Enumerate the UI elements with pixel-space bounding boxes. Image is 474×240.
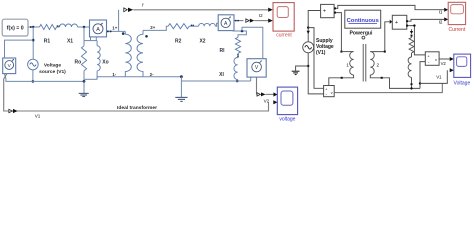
svg-text:X2: X2 [199,39,205,45]
voltage scope (left, blue) [277,87,297,122]
voltmeter V1 bottom pin to rail [4,74,6,82]
source bottom wire and ground [308,53,323,94]
ammeter U-A2 block [218,15,234,31]
svg-text:V2: V2 [441,61,447,66]
load branch bottom port marker [411,83,413,85]
node load/rail junction [410,87,412,89]
inductor Xo [97,46,100,71]
riser to I' signal line [118,10,120,32]
svg-text:1+: 1+ [112,26,117,31]
wire R2 to X2 [189,25,198,27]
wire down to magnetizing branch [83,27,85,41]
ideal transformer left winding [125,31,131,76]
linear transformer [329,22,420,89]
I1 signal from i1 to Current scope [336,5,444,9]
ground 2 stem [180,77,182,97]
wire A1 to transformer [107,30,126,32]
filled arrow on I' line [128,8,133,12]
resistor Rl [235,37,240,53]
powergui block [345,10,381,28]
V2 signal to Voltage scope [439,58,450,60]
arrow into i2 [390,20,393,24]
svg-text:I2: I2 [259,13,263,18]
svg-text:Continuous: Continuous [347,18,379,24]
svg-text:Ideal transformer: Ideal transformer [117,105,157,111]
arrow into current scope input 1 [268,8,273,12]
voltage measurement V2 block [425,52,439,66]
svg-text:Voltage: Voltage [44,63,62,69]
arrow into load branch [410,31,413,34]
current measurement i1 block [321,4,337,17]
svg-text:2: 2 [376,63,379,68]
node (84,27) [83,26,86,29]
i2 electrical out to V2 measure [408,26,425,55]
ground 1 stem [83,81,85,93]
solver f(x)=0 block [2,19,28,36]
svg-text:v: v [331,91,333,95]
svg-text:I1: I1 [439,10,443,15]
svg-text:R1: R1 [44,38,51,44]
svg-text:Xo: Xo [102,60,108,66]
voltmeter V2 bottom pin [250,77,252,81]
load inductor (right model) [408,57,411,77]
bottom rail to scope riser [420,70,447,83]
wire load bottom to rail [411,85,413,88]
current scope (left, red) [273,3,294,39]
svg-text:v: v [435,58,437,62]
i1 electrical out to transformer 1+ [336,13,341,52]
svg-text:I2: I2 [439,20,443,25]
ammeter A1 bottom pin stubs [91,37,97,41]
resistor R1 [40,24,57,29]
wire load resistor to load inductor [411,53,413,57]
V2 minus wire down to bottom rail [420,62,425,89]
V1 measure + tap wire [308,28,323,89]
ideal transformer right winding [137,30,143,76]
down arrow on source top wire [307,31,310,34]
svg-text:Xl: Xl [219,72,224,78]
voltmeter U-V2 block [247,59,266,77]
node dots after f(x) [30,26,32,28]
load branch top port marker [411,35,413,37]
right winding polarity dot [145,35,148,38]
rail C [181,80,250,82]
inductor Xl [234,58,238,80]
svg-text:Rl: Rl [220,48,226,54]
resistor Ro [81,46,86,71]
ground 1 [79,93,89,96]
supply voltage source circle [303,42,314,53]
AC voltage source V1 [28,59,39,70]
transformer bottom pins [329,75,354,86]
inductor X2 [199,23,216,26]
svg-text:Ro: Ro [74,60,81,66]
I' signal wire [133,9,268,11]
wire load inductor to bottom port [411,77,413,83]
svg-text:V1: V1 [35,113,41,118]
svg-text:+: + [395,20,398,26]
rail B under transformer [97,77,181,80]
svg-text:R2: R2 [175,39,182,45]
branch up to voltmeter V2 top [242,27,263,58]
voltmeter U-V1 block [3,58,16,74]
svg-text:Voltage: Voltage [454,81,471,87]
svg-text:2-: 2- [150,72,154,77]
A2 electrical out to load / voltmeter V2 [233,31,246,38]
Current scope (right, red) [448,2,466,33]
PS-converter open arrow on I' line [124,8,127,12]
current measurement i2 block [392,15,408,29]
inductor X1 [60,24,78,27]
svg-text:V1: V1 [436,74,442,79]
ground 2 [175,97,187,101]
magnetizing branch top wire [84,40,97,42]
stub down to rail A [83,79,85,81]
wire source top to i1 [308,11,320,42]
I2 signal from A2 [234,20,243,22]
V1 signal line [4,74,269,111]
wire X1 to ammeter A1 [78,26,90,28]
load resistor (right model) [409,38,414,54]
node for V1-measure tap [307,26,309,28]
wire port to load resistor [411,36,413,39]
secondary wire to R2 [143,26,168,30]
svg-text:source (V1): source (V1) [39,69,66,75]
Xo stub [96,41,98,46]
wire X2 to ammeter A2 [215,23,218,26]
wire R1 to X1 [57,26,60,28]
wire to voltmeter V1 top [5,40,34,58]
wire f(x) to R1 [28,26,40,28]
I2 signal to Current scope [408,19,444,21]
source bottom pin [32,70,34,82]
wire i2 to load branch [411,29,413,31]
svg-text:X1: X1 [67,38,73,44]
ground (right model) [292,71,300,74]
svg-text:current: current [276,32,292,38]
Ro stub [83,41,85,46]
rail A [6,80,85,82]
left winding polarity dot [122,32,125,35]
Xl foot to rail [237,80,239,82]
svg-text:1-: 1- [112,72,116,77]
svg-text:I': I' [142,2,144,7]
svg-text:Powergui: Powergui [350,31,374,37]
svg-text:+: + [323,9,326,15]
svg-text:1: 1 [346,63,349,68]
resistor R2 [168,24,189,29]
svg-text:A: A [96,27,100,33]
svg-text:f(x) = 0: f(x) = 0 [7,26,24,32]
V2 signal line [256,77,258,94]
voltage measurement V1 block [324,86,335,98]
V1 signal wire to scope [334,83,442,92]
svg-text:voltage: voltage [279,116,295,122]
link Rl to Xl [237,53,239,57]
svg-text:(V1): (V1) [316,50,326,56]
magnetizing bottom wire [84,78,97,80]
svg-text:2+: 2+ [150,25,155,30]
source branch down from f(x) wire [32,27,34,59]
ammeter U-A1 block [90,20,107,37]
Voltage scope (right, blue) [454,54,471,87]
svg-text:Current: Current [449,27,466,33]
